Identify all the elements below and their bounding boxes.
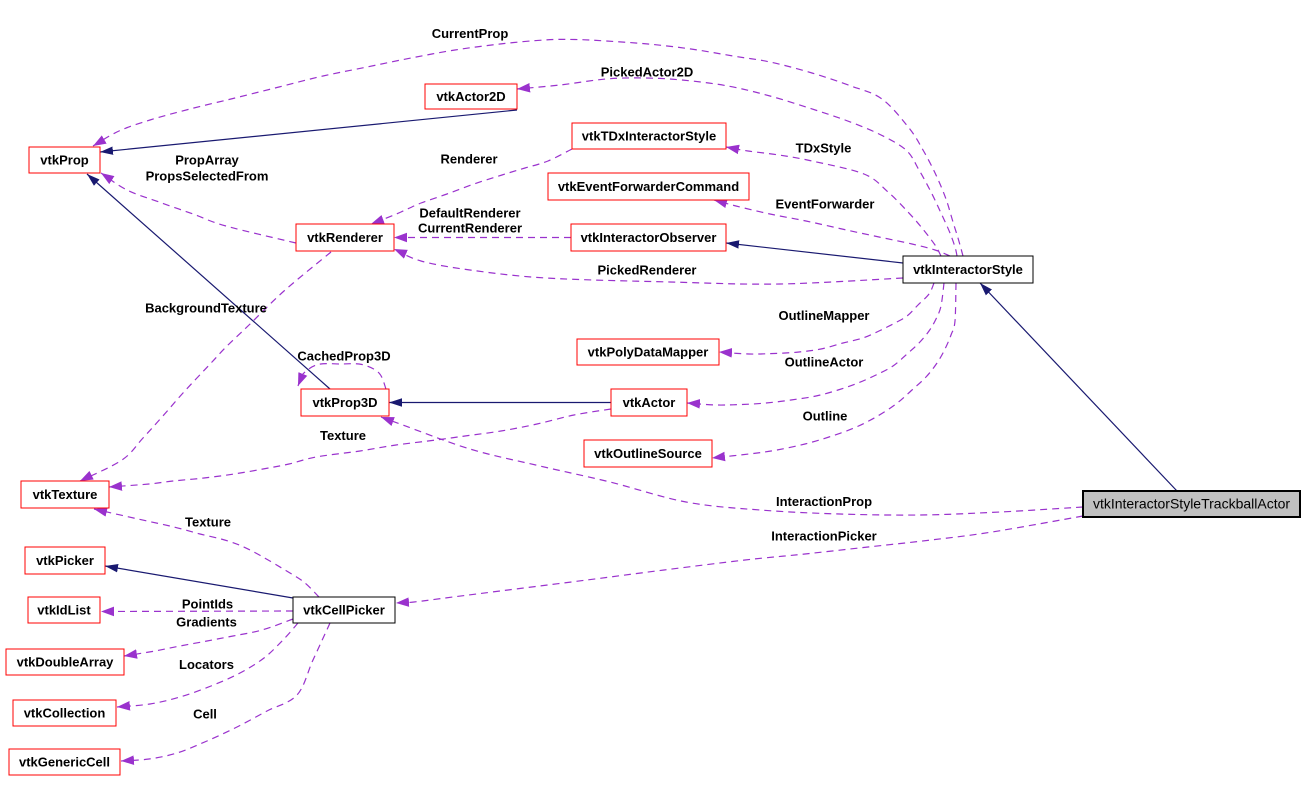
inheritance vtkActor2D to vtkProp bbox=[100, 110, 517, 152]
edge OutlineActor bbox=[687, 283, 944, 405]
class box vtkEventForwarderCommand bbox=[548, 173, 749, 200]
svg-text:vtkOutlineSource: vtkOutlineSource bbox=[594, 446, 702, 461]
edge CachedProp3D self-loop bbox=[298, 364, 386, 389]
edge EventForwarder bbox=[714, 200, 950, 256]
svg-text:vtkTDxInteractorStyle: vtkTDxInteractorStyle bbox=[582, 129, 716, 144]
class box vtkProp3D bbox=[301, 389, 389, 416]
class box vtkInteractorStyleTrackballActor bbox=[1083, 491, 1300, 517]
svg-text:vtkPolyDataMapper: vtkPolyDataMapper bbox=[588, 345, 709, 360]
svg-text:InteractionProp: InteractionProp bbox=[776, 494, 872, 509]
svg-text:vtkInteractorStyle: vtkInteractorStyle bbox=[913, 262, 1023, 277]
svg-text:vtkGenericCell: vtkGenericCell bbox=[19, 755, 110, 770]
svg-text:Locators: Locators bbox=[179, 657, 234, 672]
class box vtkRenderer bbox=[296, 224, 394, 251]
inheritance vtkInteractorStyle to vtkInteractorObserver bbox=[726, 243, 903, 263]
svg-text:vtkDoubleArray: vtkDoubleArray bbox=[17, 655, 115, 670]
edge Cell bbox=[121, 623, 330, 761]
svg-text:PropsSelectedFrom: PropsSelectedFrom bbox=[146, 169, 269, 184]
svg-text:CachedProp3D: CachedProp3D bbox=[297, 349, 390, 364]
svg-text:vtkTexture: vtkTexture bbox=[33, 487, 98, 502]
edge CurrentProp bbox=[93, 39, 963, 256]
edge Outline bbox=[712, 283, 956, 458]
class box vtkTexture bbox=[21, 481, 109, 508]
svg-text:vtkEventForwarderCommand: vtkEventForwarderCommand bbox=[558, 179, 739, 194]
svg-text:PickedRenderer: PickedRenderer bbox=[598, 263, 697, 278]
edge Gradients bbox=[124, 619, 293, 656]
class box vtkInteractorStyle bbox=[903, 256, 1033, 283]
svg-text:vtkActor2D: vtkActor2D bbox=[436, 89, 505, 104]
svg-text:vtkRenderer: vtkRenderer bbox=[307, 230, 383, 245]
edge InteractionPicker bbox=[396, 516, 1083, 603]
svg-text:TDxStyle: TDxStyle bbox=[796, 141, 852, 156]
edge Renderer bbox=[371, 149, 572, 224]
svg-text:PickedActor2D: PickedActor2D bbox=[601, 65, 693, 80]
edge PickedRenderer bbox=[394, 249, 903, 284]
class box vtkPicker bbox=[25, 547, 105, 574]
svg-text:PointIds: PointIds bbox=[182, 597, 233, 612]
svg-text:Outline: Outline bbox=[803, 409, 848, 424]
inheritance vtkCellPicker to vtkPicker bbox=[105, 566, 293, 598]
svg-text:Texture: Texture bbox=[320, 428, 366, 443]
svg-text:BackgroundTexture: BackgroundTexture bbox=[145, 301, 267, 316]
edge PointIds bbox=[101, 610, 293, 613]
svg-text:Gradients: Gradients bbox=[176, 615, 237, 630]
edge Locators bbox=[117, 623, 298, 707]
class box vtkCellPicker bbox=[293, 597, 395, 623]
class box vtkActor bbox=[611, 389, 687, 416]
class box vtkCollection bbox=[13, 700, 116, 726]
class box vtkInteractorObserver bbox=[571, 224, 726, 251]
svg-text:vtkCellPicker: vtkCellPicker bbox=[303, 603, 385, 618]
svg-text:vtkProp3D: vtkProp3D bbox=[312, 395, 377, 410]
svg-text:vtkInteractorObserver: vtkInteractorObserver bbox=[581, 230, 717, 245]
svg-text:Texture: Texture bbox=[185, 515, 231, 530]
svg-text:vtkIdList: vtkIdList bbox=[37, 603, 91, 618]
svg-text:vtkCollection: vtkCollection bbox=[24, 706, 106, 721]
svg-text:EventForwarder: EventForwarder bbox=[776, 197, 875, 212]
svg-text:Cell: Cell bbox=[193, 707, 217, 722]
svg-text:CurrentRenderer: CurrentRenderer bbox=[418, 221, 522, 236]
svg-text:DefaultRenderer: DefaultRenderer bbox=[419, 206, 520, 221]
svg-text:OutlineActor: OutlineActor bbox=[785, 355, 864, 370]
edge TDxStyle bbox=[726, 147, 941, 256]
svg-text:vtkProp: vtkProp bbox=[40, 153, 88, 168]
class box vtkIdList bbox=[28, 597, 100, 623]
class box vtkDoubleArray bbox=[6, 649, 124, 675]
svg-text:vtkActor: vtkActor bbox=[623, 395, 676, 410]
edge OutlineMapper bbox=[719, 283, 934, 354]
edge Texture from vtkCellPicker bbox=[94, 509, 319, 597]
svg-text:vtkPicker: vtkPicker bbox=[36, 553, 94, 568]
class box vtkTDxInteractorStyle bbox=[572, 123, 726, 149]
inheritance vtkActor to vtkProp3D bbox=[389, 402, 611, 404]
edge Texture from vtkActor bbox=[109, 409, 611, 487]
class box vtkGenericCell bbox=[9, 749, 120, 775]
edge PropArray PropsSelectedFrom bbox=[101, 173, 296, 243]
edge PickedActor2D bbox=[517, 78, 957, 256]
edge DefaultRenderer CurrentRenderer bbox=[394, 237, 571, 239]
edge BackgroundTexture bbox=[80, 252, 331, 481]
svg-text:InteractionPicker: InteractionPicker bbox=[771, 529, 877, 544]
svg-text:PropArray: PropArray bbox=[175, 153, 239, 168]
class box vtkProp bbox=[29, 147, 100, 173]
svg-text:vtkInteractorStyleTrackballAct: vtkInteractorStyleTrackballActor bbox=[1093, 496, 1290, 512]
svg-text:OutlineMapper: OutlineMapper bbox=[778, 308, 869, 323]
edge InteractionProp bbox=[381, 417, 1083, 515]
class box vtkOutlineSource bbox=[584, 440, 712, 467]
svg-text:CurrentProp: CurrentProp bbox=[432, 26, 509, 41]
inheritance vtkProp3D to vtkProp bbox=[87, 174, 330, 389]
class box vtkPolyDataMapper bbox=[577, 339, 719, 365]
inheritance vtkInteractorStyleTrackballActor to vtkInteractorStyle bbox=[980, 283, 1177, 491]
class box vtkActor2D bbox=[425, 84, 517, 109]
svg-text:Renderer: Renderer bbox=[440, 152, 497, 167]
